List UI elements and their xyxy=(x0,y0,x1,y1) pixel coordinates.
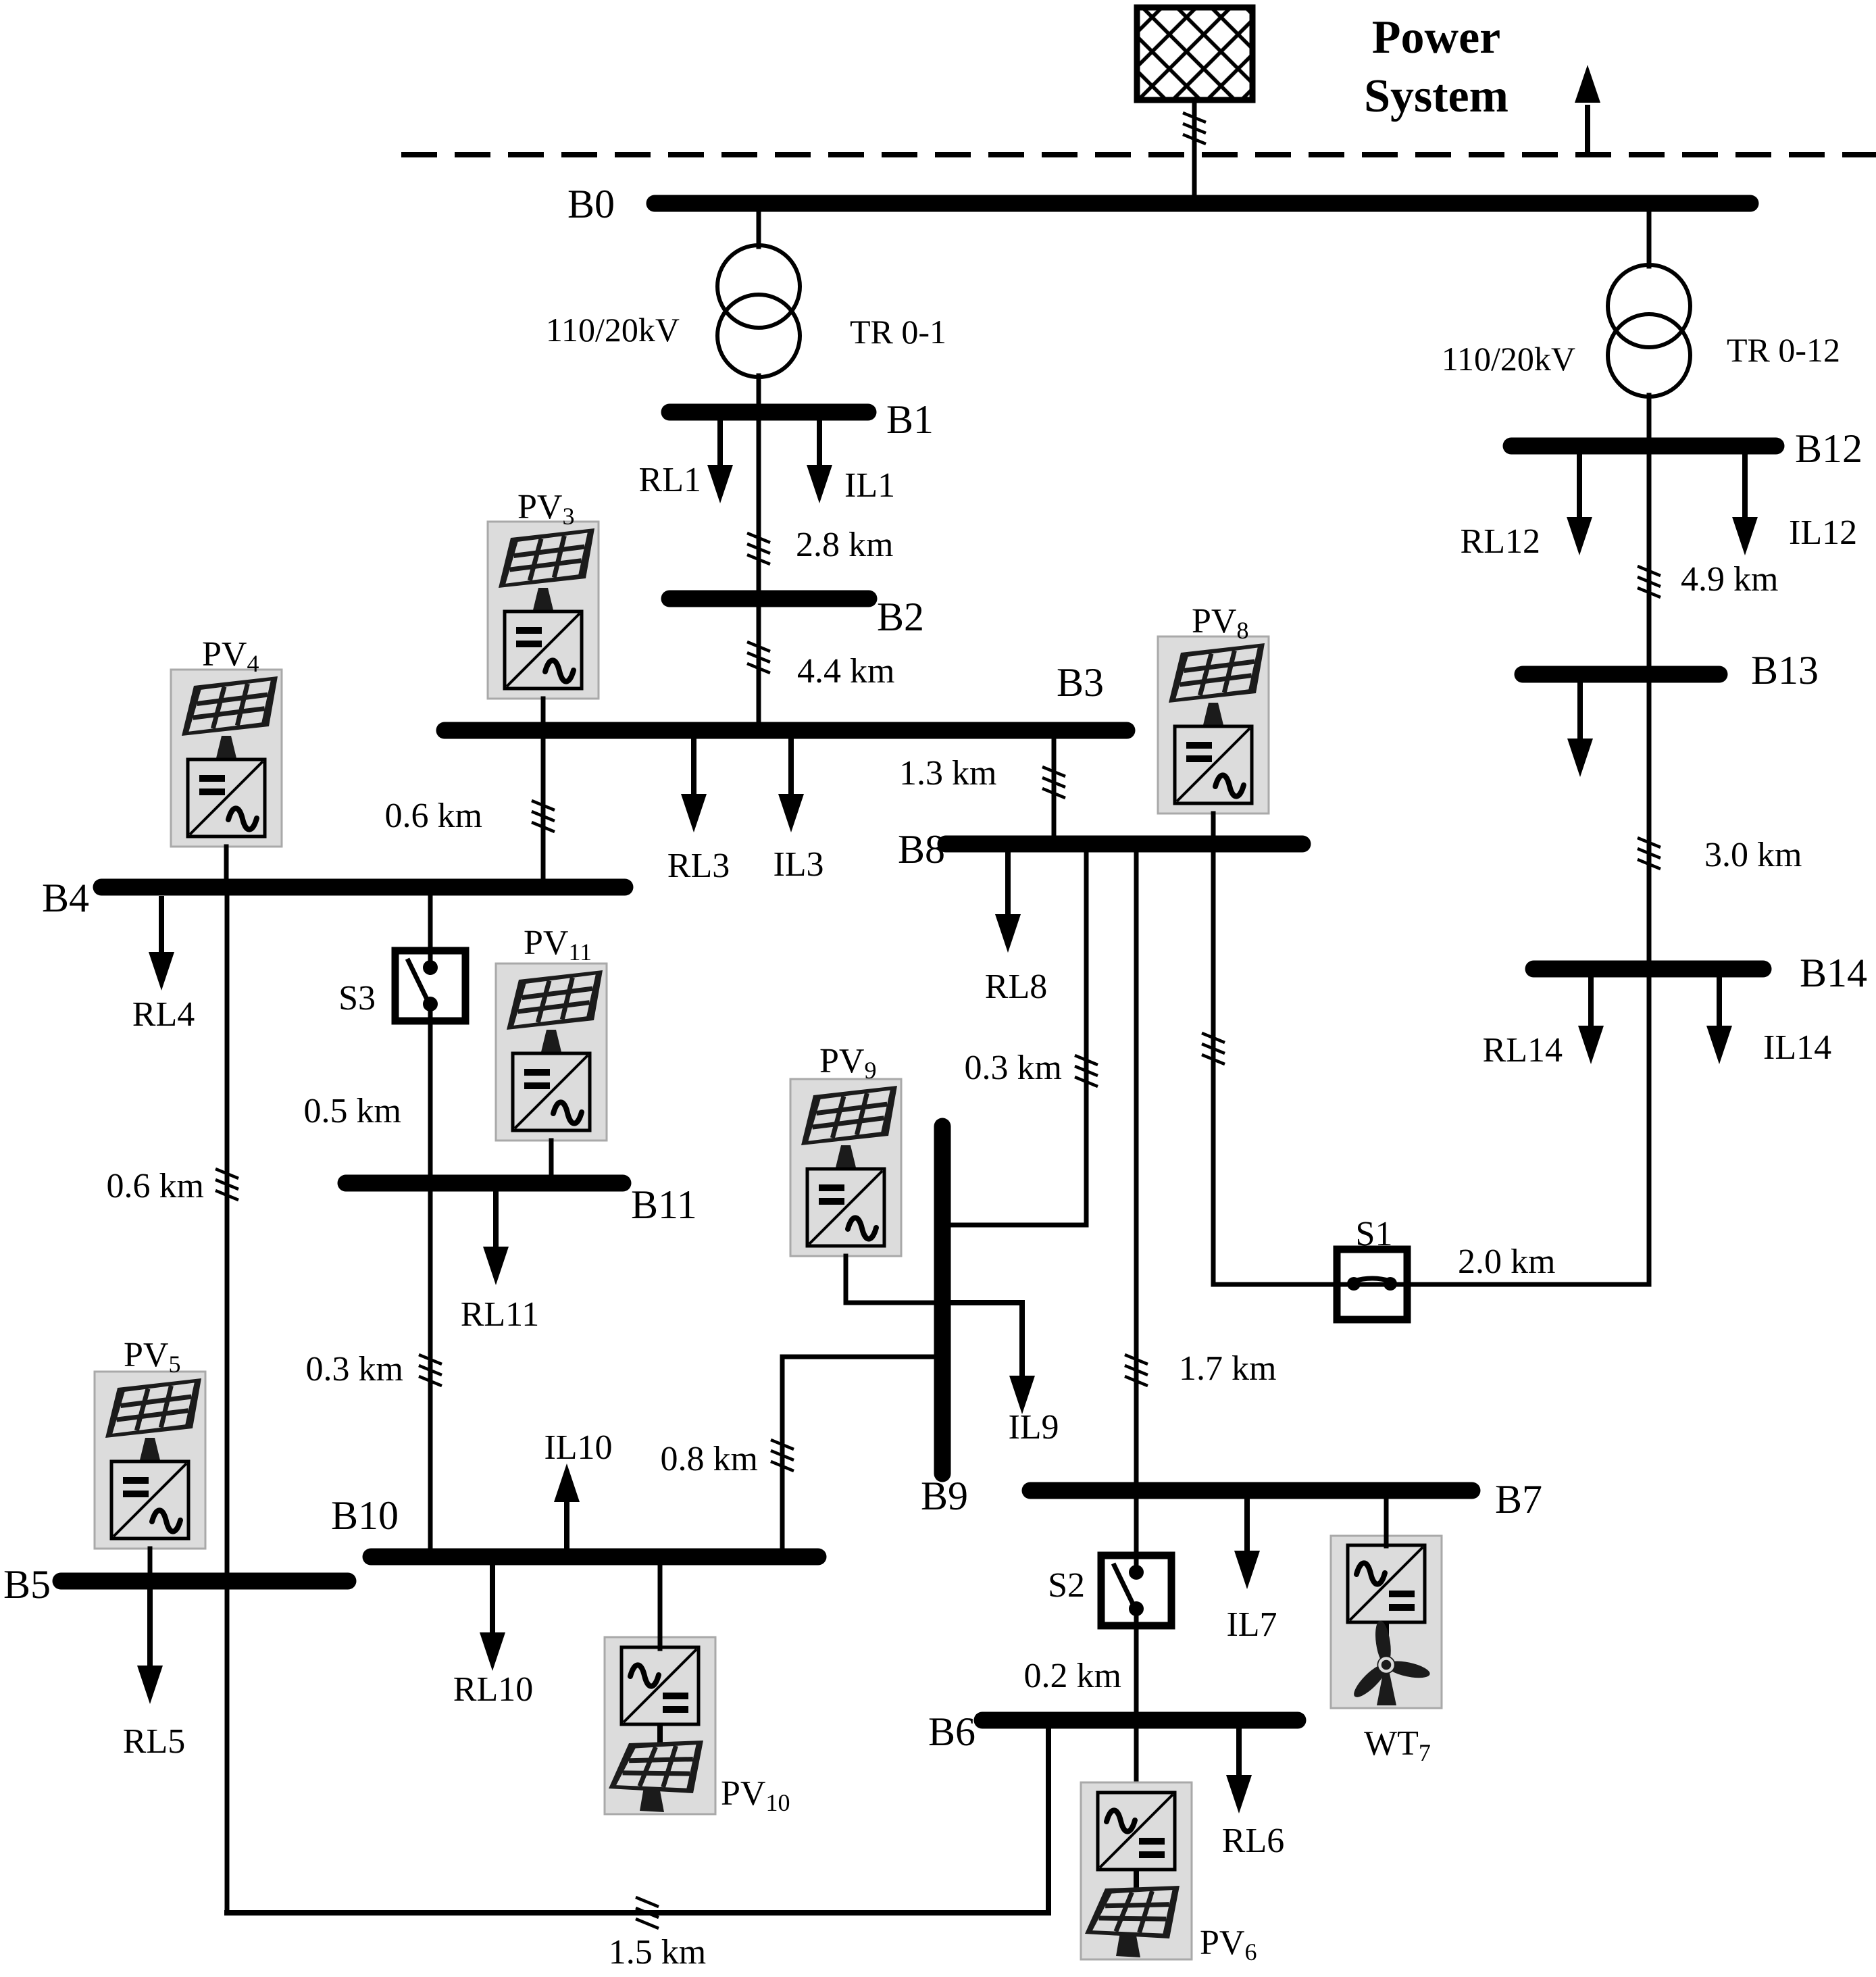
svg-text:IL1: IL1 xyxy=(844,466,895,505)
wire line B10-B9 (0.8 km) xyxy=(782,1357,935,1549)
svg-text:RL12: RL12 xyxy=(1461,522,1540,561)
svg-text:B13: B13 xyxy=(1751,648,1819,693)
transformer TR 0-12 xyxy=(1608,265,1690,397)
line-break marks on line B8-B9 xyxy=(1075,1055,1098,1086)
load arrow IL12 xyxy=(1732,454,1758,555)
svg-text:1.3 km: 1.3 km xyxy=(899,754,996,793)
load arrow RL4 xyxy=(149,896,174,991)
load arrow RL11 xyxy=(483,1191,509,1285)
wire PV3 to B3 xyxy=(541,699,546,722)
wire TR 0-12 to B12 xyxy=(1647,395,1652,439)
svg-text:B6: B6 xyxy=(928,1709,975,1754)
bus B14 xyxy=(1533,961,1763,978)
load arrow IL7 xyxy=(1234,1499,1260,1589)
utility grid equivalent (hatched box) xyxy=(1137,7,1252,100)
switch S2 xyxy=(1101,1555,1171,1626)
bus B8 xyxy=(946,836,1302,853)
bus B1 xyxy=(669,404,868,421)
load arrow B13 load xyxy=(1567,682,1593,777)
bus B9 (vertical) xyxy=(934,1126,951,1474)
wire line B4-B5 (0.6 km) xyxy=(225,896,230,1913)
svg-text:B10: B10 xyxy=(331,1493,399,1538)
bus B7 xyxy=(1030,1482,1472,1499)
svg-text:IL10: IL10 xyxy=(544,1428,612,1467)
bus B3 xyxy=(445,722,1127,739)
svg-text:S3: S3 xyxy=(338,979,376,1018)
svg-text:B5: B5 xyxy=(3,1562,51,1607)
bus B4 xyxy=(101,879,625,896)
wind generator WT7 xyxy=(1331,1536,1442,1708)
svg-text:B4: B4 xyxy=(42,876,89,920)
svg-text:RL5: RL5 xyxy=(123,1722,185,1761)
load arrow RL14 xyxy=(1578,977,1604,1064)
wire PV9 to B9 xyxy=(846,1256,935,1303)
svg-text:3.0 km: 3.0 km xyxy=(1704,836,1802,874)
svg-text:110/20kV: 110/20kV xyxy=(546,311,680,349)
svg-text:2.8 km: 2.8 km xyxy=(796,526,893,564)
wire line B13-B14 (3.0 km) xyxy=(1647,682,1652,969)
wire line B8-B9 (0.3 km) xyxy=(942,852,1086,1225)
svg-text:RL3: RL3 xyxy=(667,847,730,885)
line-break marks on line B1-B2 xyxy=(747,533,770,564)
wire TR 0-1 to B1 xyxy=(757,376,761,405)
svg-text:1.5 km: 1.5 km xyxy=(609,1933,706,1972)
svg-text:System: System xyxy=(1364,70,1509,122)
wire WT7 to B7 xyxy=(1384,1499,1389,1546)
wire S1 to B14 (2.0 km) xyxy=(1410,978,1649,1284)
line-break marks on line B12-B13 xyxy=(1638,566,1660,597)
line-break marks on line B10-B9 xyxy=(771,1440,794,1471)
wire line B3-B8 (1.3 km) xyxy=(1052,739,1057,836)
wire line B2-B3 (4.4 km) xyxy=(757,607,761,723)
line-break marks on line B5-B6 xyxy=(636,1897,659,1928)
load arrow IL3 xyxy=(778,739,804,832)
svg-text:4.4 km: 4.4 km xyxy=(797,652,894,691)
PV generator PV11 xyxy=(496,964,607,1141)
svg-text:B1: B1 xyxy=(886,397,934,442)
line-break marks on line B8-S1 xyxy=(1202,1033,1225,1064)
wire line B5-B6 (1.5 km) xyxy=(227,1728,1048,1913)
line-break marks on line B2-B3 xyxy=(747,642,770,673)
line-break marks on line B4-B5 xyxy=(216,1169,238,1200)
bus B12 xyxy=(1511,438,1776,455)
boundary dashed line xyxy=(401,152,1876,157)
PV generator PV10 xyxy=(605,1637,715,1814)
PV generator PV3 xyxy=(488,522,599,699)
svg-text:RL6: RL6 xyxy=(1222,1822,1284,1860)
svg-text:RL4: RL4 xyxy=(132,995,195,1034)
svg-text:0.8 km: 0.8 km xyxy=(661,1440,758,1478)
svg-text:RL8: RL8 xyxy=(985,968,1047,1006)
svg-text:IL14: IL14 xyxy=(1763,1028,1831,1067)
svg-text:B2: B2 xyxy=(877,595,924,639)
PV generator PV9 xyxy=(790,1079,901,1256)
load arrow RL8 xyxy=(995,852,1021,953)
svg-text:S2: S2 xyxy=(1048,1566,1085,1605)
svg-text:0.6 km: 0.6 km xyxy=(107,1167,204,1205)
svg-text:1.7 km: 1.7 km xyxy=(1179,1349,1276,1388)
svg-text:B8: B8 xyxy=(898,827,945,872)
line-break marks on line B8-B7 xyxy=(1125,1355,1148,1386)
wire S2 to B6 (0.2 km) xyxy=(1134,1626,1139,1795)
load arrow IL14 xyxy=(1706,977,1732,1064)
transformer TR 0-1 xyxy=(717,245,800,377)
switch S1 xyxy=(1337,1249,1407,1320)
bus B5 xyxy=(61,1573,348,1590)
svg-text:0.2 km: 0.2 km xyxy=(1024,1657,1121,1695)
wire line B1-B2 (2.8 km) xyxy=(757,420,761,591)
line-break marks on line B11-B10 xyxy=(419,1355,442,1386)
svg-text:RL10: RL10 xyxy=(453,1670,533,1709)
bus B6 xyxy=(982,1712,1298,1729)
svg-text:0.6 km: 0.6 km xyxy=(385,797,482,835)
svg-text:2.0 km: 2.0 km xyxy=(1458,1243,1555,1281)
wire line B12-B13 (4.9 km) xyxy=(1647,454,1652,666)
bus B0 xyxy=(655,195,1750,212)
svg-text:0.3 km: 0.3 km xyxy=(965,1049,1062,1087)
wire PV4 to B4 xyxy=(224,847,229,879)
svg-text:S1: S1 xyxy=(1356,1215,1393,1253)
line-break marks on grid feeder xyxy=(1183,113,1206,144)
svg-text:IL3: IL3 xyxy=(773,845,823,884)
svg-text:B9: B9 xyxy=(921,1474,968,1518)
svg-text:IL7: IL7 xyxy=(1226,1605,1277,1644)
svg-text:0.5 km: 0.5 km xyxy=(304,1092,401,1130)
PV generator PV6 xyxy=(1081,1782,1192,1959)
wire PV5 to B5 xyxy=(148,1549,153,1574)
wire grid to bus B0 xyxy=(1192,100,1197,201)
svg-text:4.9 km: 4.9 km xyxy=(1681,560,1778,599)
load arrow RL1 xyxy=(707,420,733,503)
wire B4 to switch S3 xyxy=(428,896,433,951)
load arrow RL6 xyxy=(1226,1728,1252,1813)
svg-text:Power: Power xyxy=(1372,11,1500,64)
bus B11 xyxy=(346,1175,623,1192)
svg-text:B7: B7 xyxy=(1495,1477,1542,1522)
bus B2 xyxy=(669,591,869,607)
wire line B11-B10 (0.3 km) xyxy=(428,1191,433,1549)
svg-text:RL1: RL1 xyxy=(639,461,701,499)
wire PV8 to B8 xyxy=(1211,814,1216,836)
line-break marks on line B3-B4 xyxy=(532,801,555,832)
switch S3 xyxy=(395,951,465,1021)
power flow arrow (up) xyxy=(1575,65,1600,155)
svg-text:RL14: RL14 xyxy=(1483,1031,1563,1070)
svg-text:IL9: IL9 xyxy=(1008,1408,1059,1447)
load arrow RL12 xyxy=(1567,454,1592,555)
line-break marks on line B3-B8 xyxy=(1042,767,1065,798)
load arrow IL10 xyxy=(554,1463,580,1549)
svg-text:110/20kV: 110/20kV xyxy=(1442,340,1575,378)
svg-text:0.3 km: 0.3 km xyxy=(306,1350,403,1388)
wire B0 to TR 0-1 xyxy=(757,211,761,247)
svg-text:B0: B0 xyxy=(567,182,615,226)
PV generator PV4 xyxy=(171,670,282,847)
wire B7 to switch S2 xyxy=(1134,1499,1139,1555)
wire B0 to TR 0-12 xyxy=(1647,211,1652,266)
line-break marks on line B13-B14 xyxy=(1638,838,1660,869)
svg-text:B14: B14 xyxy=(1800,951,1867,995)
wire PV10 to B10 xyxy=(658,1565,663,1649)
wire line B8-B7 (1.7 km) xyxy=(1134,852,1139,1482)
load arrow IL1 xyxy=(807,420,832,503)
PV generator PV5 xyxy=(95,1372,205,1549)
svg-text:B3: B3 xyxy=(1057,660,1104,705)
svg-text:RL11: RL11 xyxy=(461,1295,540,1334)
bus B13 xyxy=(1523,666,1719,683)
PV generator PV8 xyxy=(1158,636,1269,814)
wire line B8 to switch S1 xyxy=(1213,852,1336,1284)
load arrow RL3 xyxy=(681,739,707,832)
load arrow RL5 xyxy=(137,1589,163,1704)
wire S3 to B11 (0.5 km) xyxy=(428,1021,433,1176)
load arrow IL9 xyxy=(950,1300,1035,1414)
svg-text:B11: B11 xyxy=(631,1182,697,1227)
svg-text:IL12: IL12 xyxy=(1789,514,1857,552)
bus B10 xyxy=(371,1549,818,1566)
wire line B3-B4 (0.6 km) xyxy=(541,739,546,878)
svg-text:B12: B12 xyxy=(1795,426,1862,471)
wire PV11 to B11 xyxy=(549,1141,554,1176)
svg-text:TR 0-12: TR 0-12 xyxy=(1727,331,1840,369)
svg-text:TR 0-1: TR 0-1 xyxy=(850,313,946,351)
load arrow RL10 xyxy=(480,1565,505,1671)
